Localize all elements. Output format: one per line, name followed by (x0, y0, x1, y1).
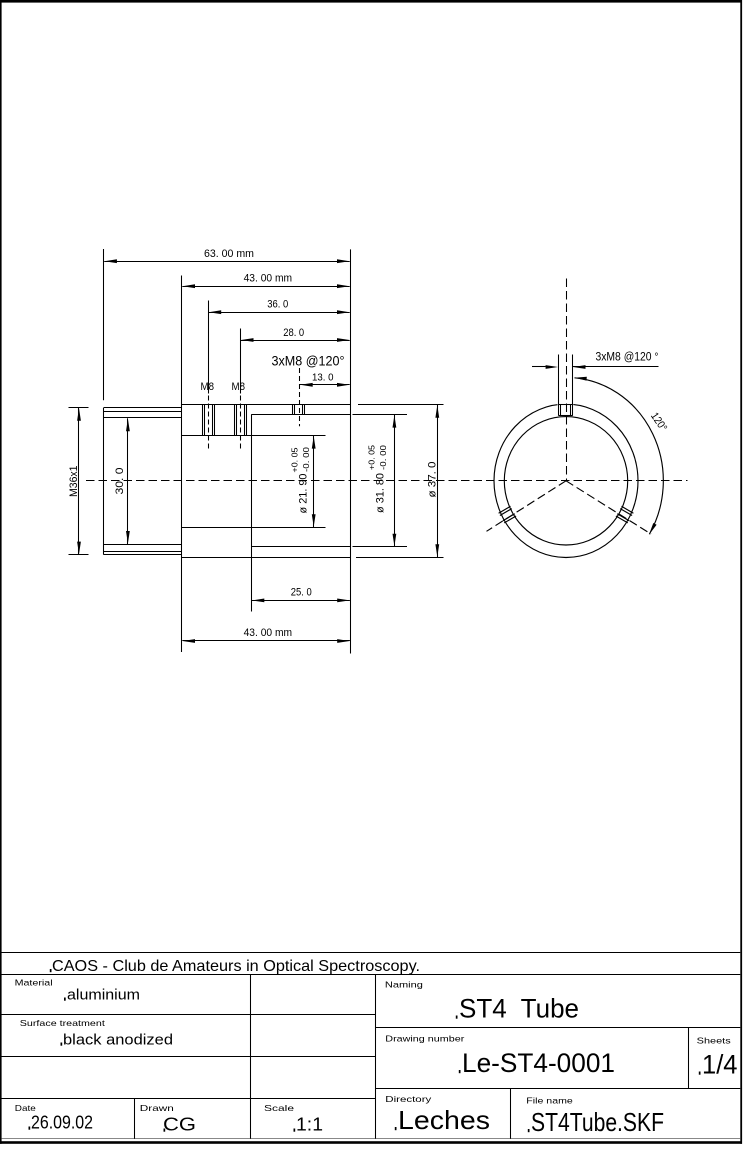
title block outer top line (2, 952, 741, 954)
body OD top extension (358, 404, 444, 406)
svg-text:13. 0: 13. 0 (312, 372, 334, 383)
63.00 left extension (103, 249, 105, 400)
title row line date (2, 1098, 376, 1100)
svg-text:Le-ST4-0001: Le-ST4-0001 (462, 1048, 615, 1078)
hole 1 centerline (208, 301, 210, 452)
tube side view left face (103, 408, 105, 555)
svg-text:1/4: 1/4 (702, 1050, 738, 1080)
svg-text:ø 31. 80: ø 31. 80 (375, 473, 387, 513)
dim 3xM8 end view (532, 351, 659, 369)
svg-text:3xM8 @120°: 3xM8 @120° (272, 353, 345, 369)
svg-text:Scale: Scale (264, 1103, 294, 1113)
title block bottom line (2, 1138, 741, 1140)
title col line center (375, 975, 377, 1139)
title block header line (2, 974, 741, 976)
right face and extension (350, 249, 352, 653)
svg-text:ø 37. 0: ø 37. 0 (427, 462, 439, 498)
svg-text:43. 00 mm: 43. 00 mm (244, 273, 293, 285)
svg-text:Sheets: Sheets (697, 1036, 731, 1046)
title row line material (2, 1014, 376, 1016)
dim 36.0 (209, 299, 350, 315)
centerline 210deg (487, 481, 567, 532)
bore d31.80 bottom line (251, 546, 350, 548)
svg-text:+0. 05: +0. 05 (368, 444, 377, 470)
thread OD top line (104, 407, 182, 409)
svg-text:Naming: Naming (385, 980, 423, 990)
thread OD bottom line (104, 554, 182, 556)
svg-text:Material: Material (15, 978, 53, 988)
svg-text:-0. 00: -0. 00 (302, 446, 311, 472)
title col line sheets (688, 1028, 690, 1090)
title row line naming (376, 1027, 741, 1029)
thread root bottom line (104, 551, 182, 553)
svg-text:Drawn: Drawn (140, 1103, 174, 1113)
bore step edge and 25.0 extension (251, 415, 253, 612)
hole M8 at 210deg (499, 506, 516, 523)
hole 2 centerline (240, 329, 242, 452)
bore d31.80 top line (251, 414, 350, 416)
svg-text:M8: M8 (232, 381, 246, 393)
bore d30 bottom line (104, 544, 182, 546)
dim dia 31.80 (368, 415, 397, 547)
top notch section mask (558, 403, 574, 416)
svg-text:Surface treatment: Surface treatment (20, 1018, 106, 1028)
bore d21.90 bottom line (182, 527, 326, 529)
thread root top line (104, 411, 182, 413)
svg-text:CG: CG (163, 1115, 196, 1135)
svg-text:28. 0: 28. 0 (283, 327, 304, 339)
svg-text:ST4Tube.SKF: ST4Tube.SKF (531, 1107, 664, 1137)
dim M36x1 (68, 408, 89, 555)
hole 3 centerline (299, 368, 301, 426)
title row line drawing (376, 1088, 741, 1090)
svg-text:36. 0: 36. 0 (267, 299, 288, 311)
svg-text:26.09.02: 26.09.02 (31, 1113, 93, 1133)
svg-text:1:1: 1:1 (296, 1115, 323, 1135)
svg-text:aluminium: aluminium (67, 987, 140, 1004)
svg-text:M8: M8 (201, 381, 215, 393)
svg-text:Leches: Leches (398, 1105, 490, 1135)
tapped hole M8 #2 (235, 405, 247, 436)
text cursor ticks (29, 969, 701, 1132)
svg-text:Date: Date (15, 1103, 36, 1113)
centerline 330deg (566, 481, 651, 534)
horizontal centerline (86, 480, 688, 482)
end view inner circle (504, 417, 627, 545)
vertical centerline (566, 279, 568, 481)
body OD bottom line (182, 557, 351, 559)
title col line A (250, 975, 252, 1139)
svg-text:3xM8 @120 °: 3xM8 @120 ° (596, 351, 659, 363)
tapped hole M8 #1 (203, 405, 215, 436)
left step and 43.00 extension (181, 276, 183, 653)
svg-text:File name: File name (526, 1095, 573, 1105)
hole M8 at 330deg (616, 506, 634, 523)
dim 28.0 (241, 327, 350, 342)
arc 120deg (574, 377, 669, 535)
dim 43.00 mm bottom (182, 627, 350, 643)
tapped hole M8 #3 (293, 405, 305, 415)
body OD top line (182, 404, 351, 406)
dim dia 21.90 (291, 436, 316, 528)
svg-text:ST4 Tube: ST4 Tube (459, 994, 579, 1024)
hole projection lines (559, 355, 573, 405)
bore d30 top line (104, 417, 182, 419)
svg-text:30. 0: 30. 0 (114, 468, 126, 495)
dim 13.0 (300, 372, 350, 386)
svg-text:Directory: Directory (385, 1094, 432, 1104)
svg-text:43. 00 mm: 43. 00 mm (244, 627, 293, 639)
title col line directory (510, 1089, 512, 1139)
svg-text:M36x1: M36x1 (68, 466, 80, 498)
svg-text:CAOS - Club de Amateurs in Opt: CAOS - Club de Amateurs in Optical Spect… (52, 958, 420, 975)
end view outer circle (494, 404, 638, 557)
svg-text:Drawing number: Drawing number (385, 1034, 464, 1044)
dim 43.00 mm top (182, 273, 349, 289)
svg-text:25. 0: 25. 0 (291, 587, 312, 599)
dim 25.0 (252, 587, 350, 603)
bore d31.80 bottom extension (353, 546, 408, 548)
svg-text:63. 00 mm: 63. 00 mm (204, 248, 254, 260)
svg-text:ø 21. 90: ø 21. 90 (298, 474, 310, 514)
title col line B (134, 1099, 136, 1139)
hole M8 top notch (558, 404, 573, 415)
bore d21.90 top line (182, 435, 326, 437)
svg-text:-0. 00: -0. 00 (379, 444, 388, 470)
svg-text:black anodized: black anodized (63, 1032, 173, 1049)
bore d31.80 top extension (353, 414, 408, 416)
dim dia 37.0 (427, 405, 440, 558)
svg-text:+0. 05: +0. 05 (291, 447, 300, 473)
dim 63.00 mm (104, 248, 350, 263)
title row line surface (2, 1056, 376, 1058)
dim 30.0 (114, 418, 130, 544)
body OD bottom extension (356, 557, 444, 559)
